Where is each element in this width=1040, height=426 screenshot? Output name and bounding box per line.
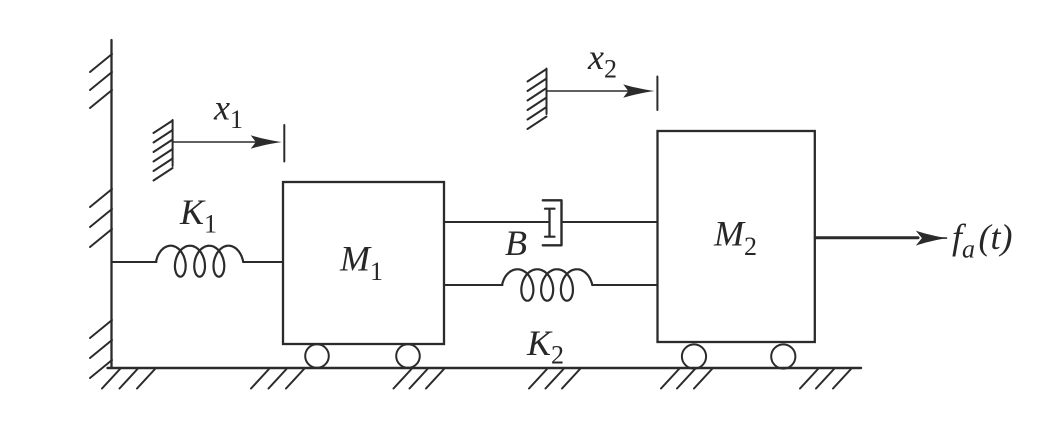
force arrow f_a(t) — [816, 231, 947, 246]
damper B — [444, 200, 658, 245]
svg-text:M1: M1 — [339, 239, 383, 287]
reference x2 — [528, 69, 658, 130]
svg-text:M2: M2 — [713, 214, 757, 262]
spring K1 — [112, 246, 284, 277]
svg-text:x1: x1 — [213, 88, 243, 135]
svg-text:B: B — [505, 223, 527, 263]
ground — [102, 368, 861, 389]
reference x1 — [154, 120, 285, 181]
spring K2 — [444, 269, 658, 300]
svg-text:K1: K1 — [179, 192, 217, 239]
mass M1 — [283, 182, 444, 368]
mass M2 — [658, 131, 815, 369]
svg-text:K2: K2 — [526, 323, 564, 370]
svg-text:fa(t): fa(t) — [952, 217, 1013, 264]
svg-text:x2: x2 — [587, 37, 617, 84]
wall — [90, 40, 112, 378]
